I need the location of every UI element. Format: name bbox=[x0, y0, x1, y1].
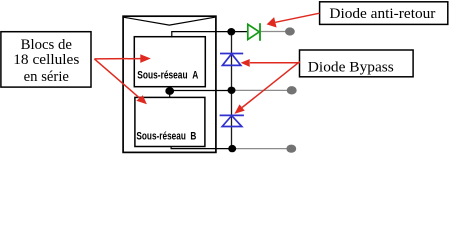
svg-text:en série: en série bbox=[24, 69, 69, 85]
svg-text:18 cellules: 18 cellules bbox=[13, 52, 79, 68]
svg-text:Sous-réseau A: Sous-réseau A bbox=[137, 69, 198, 81]
svg-text:Diode anti-retour: Diode anti-retour bbox=[329, 6, 435, 22]
svg-text:Sous-réseau B: Sous-réseau B bbox=[136, 130, 196, 142]
svg-text:Blocs de: Blocs de bbox=[21, 37, 72, 53]
svg-text:Diode Bypass: Diode Bypass bbox=[308, 59, 394, 75]
